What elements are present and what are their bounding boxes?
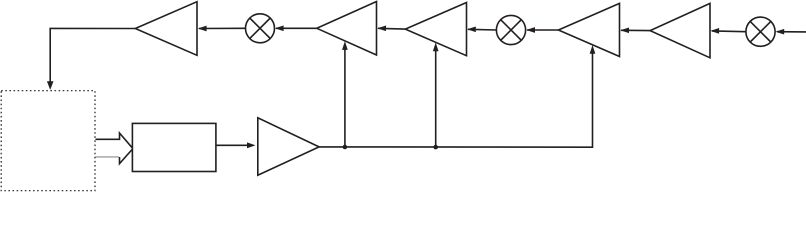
wire M1 to A1 [712,30,746,33]
arrowhead into mixer M3 [275,25,284,31]
dashed box (DSP block) [1,91,95,191]
op-amp A5 [135,2,197,56]
arrowhead up into A4 [342,41,348,50]
node J1 [343,145,348,150]
wire filter box to A6 [216,144,249,146]
op-amp A3 [405,3,466,56]
wire A3 to A4 [378,27,405,30]
arrowhead into amp A1 [710,28,719,34]
wire A4 to M3 [276,27,317,29]
wire A2 to M2 [527,29,558,31]
wire A6 output bus [319,51,592,147]
arrowhead into mixer M1 [775,29,784,35]
arrowhead up into A3 [433,43,439,52]
arrowhead into amp A2 [620,27,629,33]
op-amp A1 [650,3,710,57]
mixer M1 [746,17,775,46]
op-amp A4 [317,2,377,56]
wire M2 to A3 [468,28,496,31]
wire A1 to A2 [621,29,650,31]
arrowhead up into A2 [590,45,596,54]
arrowhead into amp A5 [198,26,207,32]
node J2 [433,145,438,150]
wire A5 output to corner [50,28,135,83]
block arrow gray underside [96,156,120,158]
block arrow dashed box to filter box (dark part) [96,133,133,164]
arrowhead into amp A6 [247,142,255,148]
wire J2 up to A3 [435,49,437,148]
op-amp A2 [558,3,619,56]
arrowhead into amp A3 [467,26,476,32]
wire RF input from right edge [777,31,806,33]
arrowhead down into dashed box [47,81,54,90]
wire M3 to A5 [199,27,246,29]
filter box [132,123,216,171]
op-amp A6 [258,118,319,175]
arrowhead into amp A4 [377,25,386,31]
mixer M2 [496,15,525,44]
arrowhead into mixer M2 [526,27,535,33]
wire J1 up to A4 [344,47,346,147]
mixer M3 [246,14,275,43]
